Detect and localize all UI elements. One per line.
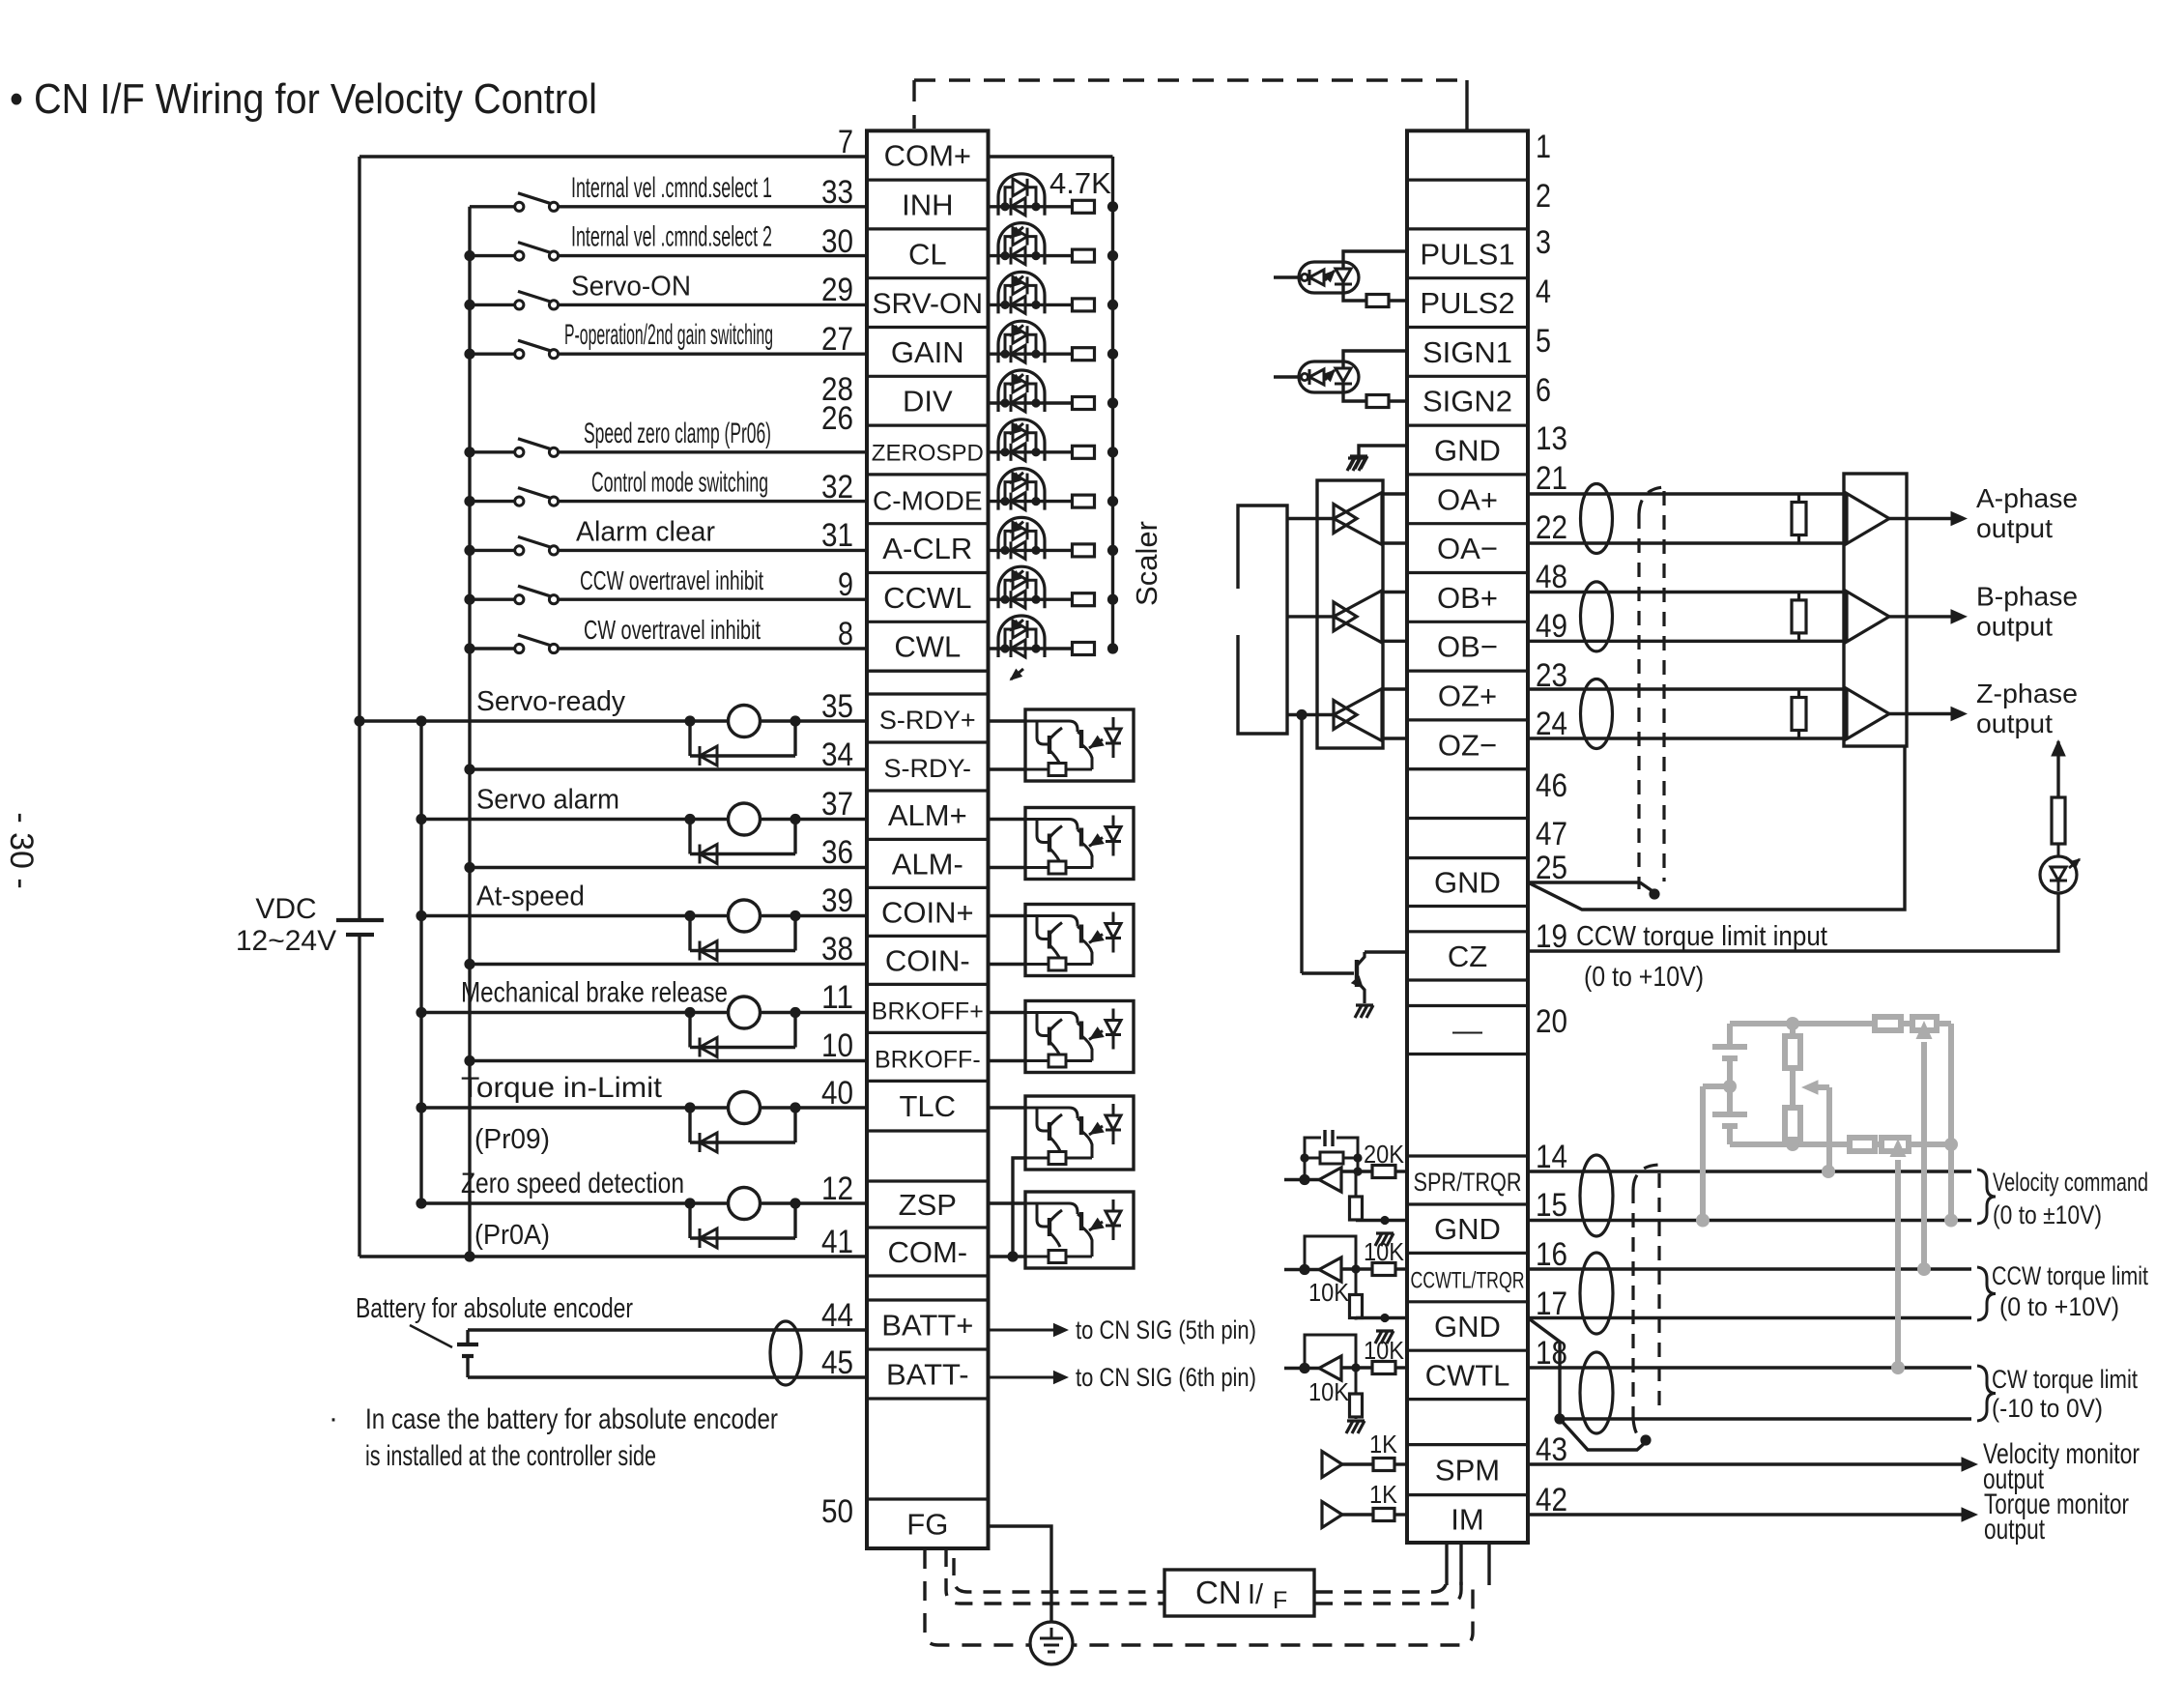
input row ZEROSPD: wire and switch	[464, 447, 474, 457]
pull-up bus from COM+ with 4.7K resistors	[989, 155, 1113, 158]
svg-text:26: 26	[821, 400, 853, 437]
svg-text:10K: 10K	[1308, 1278, 1350, 1307]
LED indicator	[2040, 856, 2077, 893]
input row GAIN: wire and switch	[464, 349, 474, 360]
svg-text:BATT+: BATT+	[881, 1309, 973, 1343]
battery for absolute encoder	[457, 1343, 478, 1346]
wire pin16 CCWTL/TRQR	[1528, 1267, 1971, 1270]
svg-text:13: 13	[1536, 420, 1567, 457]
svg-text:Velocity command: Velocity command	[1993, 1168, 2148, 1197]
switch common bus (COM-) vertical	[468, 207, 471, 1257]
output arrow OZ	[1889, 712, 1958, 715]
svg-text:(0 to +10V): (0 to +10V)	[1999, 1292, 2119, 1321]
optocoupler input CCWL	[989, 598, 1075, 601]
light arrow C-MODE	[1011, 522, 1023, 533]
wire BATT+ pin44	[468, 1328, 867, 1331]
svg-text:COM+: COM+	[884, 139, 971, 173]
svg-text:CW overtravel inhibit: CW overtravel inhibit	[584, 615, 761, 645]
optocoupler input ZEROSPD	[989, 450, 1075, 453]
svg-text:Z-phase: Z-phase	[1976, 679, 2078, 708]
internal bus bracket	[1238, 506, 1287, 734]
CW pot wiper arrow	[1895, 1160, 1901, 1368]
feedback capacitor	[1305, 1138, 1321, 1158]
svg-text:ALM-: ALM-	[892, 847, 963, 881]
op-amp CWTL input stage	[1284, 1367, 1319, 1370]
svg-text:I/: I/	[1248, 1579, 1264, 1610]
shield drain (analog)	[1560, 1419, 1646, 1450]
light arrow DIV	[1011, 423, 1023, 434]
wire pin43 velocity monitor	[1528, 1462, 1968, 1465]
svg-text:CCW overtravel inhibit: CCW overtravel inhibit	[580, 565, 763, 595]
input row C-MODE: wire and switch	[464, 496, 474, 506]
light arrow CL	[1011, 276, 1023, 287]
svg-text:Internal vel .cmnd.select 2: Internal vel .cmnd.select 2	[571, 221, 772, 253]
svg-text:(0 to +10V): (0 to +10V)	[1584, 962, 1704, 993]
op-amp CCWTL/TRQR input stage	[1284, 1268, 1319, 1271]
svg-text:OA+: OA+	[1437, 482, 1498, 516]
wiper to SPR/TRQR	[1814, 1084, 1829, 1090]
svg-text:CW torque limit: CW torque limit	[1992, 1365, 2138, 1394]
receiver block (external)	[1844, 474, 1907, 746]
optocoupler input INH	[989, 205, 1075, 208]
relay coil S-RDY	[729, 706, 761, 737]
svg-text:1K: 1K	[1369, 1480, 1398, 1509]
optocoupler input SRV-ON	[989, 303, 1075, 306]
svg-text:(-10 to 0V): (-10 to 0V)	[1992, 1394, 2103, 1423]
svg-text:Alarm clear: Alarm clear	[576, 516, 715, 547]
svg-text:37: 37	[821, 786, 853, 823]
svg-text:BATT-: BATT-	[886, 1358, 969, 1392]
svg-text:ZSP: ZSP	[899, 1188, 957, 1222]
input row CL: wire and switch	[464, 250, 474, 261]
optocoupler PULS input	[1274, 275, 1299, 278]
svg-text:50: 50	[821, 1493, 853, 1530]
svg-text:1: 1	[1536, 129, 1551, 165]
buffer IM monitor	[1322, 1502, 1342, 1528]
line driver OB	[1287, 615, 1334, 618]
receiver triangle OB	[1847, 592, 1889, 642]
output row BRKOFF return wire	[464, 1055, 474, 1066]
svg-text:GND: GND	[1434, 434, 1501, 468]
light arrow ZEROSPD	[1011, 473, 1023, 483]
twisted pair ellipse OB	[1581, 582, 1613, 651]
GND15 wire	[1356, 1219, 1407, 1222]
wire pin19 CCW torque limit input	[1528, 893, 2058, 951]
optocoupler input CWL	[989, 647, 1075, 650]
label CW torque limit	[1977, 1366, 1996, 1421]
line driver OA	[1287, 517, 1334, 520]
wires OA+ / OA- to pins	[1382, 492, 1407, 495]
wire pin15 GND	[1528, 1219, 1971, 1222]
svg-text:22: 22	[1536, 509, 1567, 546]
svg-text:BRKOFF-: BRKOFF-	[875, 1046, 981, 1073]
svg-text:Servo alarm: Servo alarm	[476, 785, 619, 816]
twisted pair ellipses (analog)	[1580, 1155, 1613, 1236]
resistor above LED	[2052, 797, 2065, 844]
input row SRV-ON: wire and switch	[464, 300, 474, 310]
svg-text:20K: 20K	[1364, 1140, 1405, 1169]
svg-text:15: 15	[1536, 1187, 1567, 1224]
svg-text:OA−: OA−	[1437, 532, 1498, 565]
svg-text:SRV-ON: SRV-ON	[873, 288, 983, 320]
twisted pair ellipse BATT	[770, 1321, 801, 1385]
svg-text:CCW torque limit: CCW torque limit	[1992, 1261, 2148, 1290]
svg-text:COIN+: COIN+	[881, 895, 974, 929]
encoder pair OZ wires	[1528, 687, 1847, 690]
svg-text:OZ+: OZ+	[1438, 679, 1497, 713]
wire COM+ pin7 left	[359, 155, 867, 158]
svg-text:(0 to ±10V): (0 to ±10V)	[1993, 1200, 2102, 1229]
svg-text:TLC: TLC	[900, 1089, 957, 1123]
output row TLC: relay coil and diode	[416, 1102, 426, 1113]
svg-text:output: output	[1976, 513, 2053, 543]
output arrow OA	[1889, 517, 1958, 520]
wires OB+ / OB- to pins	[1382, 591, 1407, 593]
svg-text:is installed at the controller: is installed at the controller side	[365, 1440, 656, 1472]
svg-text:CCW torque limit input: CCW torque limit input	[1576, 921, 1827, 952]
wire pin42 torque monitor	[1528, 1513, 1968, 1516]
light arrow SRV-ON	[1011, 325, 1023, 335]
svg-text:SPM: SPM	[1435, 1454, 1500, 1488]
svg-text:F: F	[1273, 1587, 1287, 1614]
CN I/F box	[1164, 1570, 1314, 1616]
svg-text:10: 10	[821, 1027, 853, 1064]
optocoupler input CL	[989, 254, 1075, 257]
svg-text:(Pr0A): (Pr0A)	[474, 1220, 550, 1251]
terminating resistor OZ	[1797, 689, 1800, 698]
optocoupler output BRKOFF	[1025, 1001, 1134, 1073]
svg-text:39: 39	[821, 882, 853, 919]
svg-text:Mechanical brake release: Mechanical brake release	[461, 977, 728, 1009]
svg-text:BRKOFF+: BRKOFF+	[872, 997, 984, 1025]
output common bus (+)	[419, 721, 422, 1203]
output row ALM: relay coil and diode	[416, 814, 426, 824]
svg-text:P-operation/2nd gain switching: P-operation/2nd gain switching	[564, 319, 773, 351]
node to CZ transistor base	[1296, 709, 1307, 720]
svg-text:S-RDY-: S-RDY-	[884, 754, 972, 783]
grey battery 1	[1712, 1044, 1747, 1050]
stub wires below right connector	[1445, 1543, 1448, 1585]
svg-text:ALM+: ALM+	[888, 798, 967, 832]
optocoupler input C-MODE	[989, 500, 1075, 503]
optocoupler input GAIN	[989, 353, 1075, 356]
optocoupler SIGN input	[1274, 375, 1299, 378]
svg-text:CN: CN	[1195, 1575, 1242, 1610]
GND17 wire	[1356, 1316, 1407, 1319]
relay coil ALM	[729, 803, 761, 835]
protective earth symbol	[1030, 1622, 1073, 1664]
svg-text:10K: 10K	[1308, 1377, 1350, 1406]
dashed cable shield (encoder pairs)	[1637, 514, 1640, 889]
output row ZSP: relay coil and diode	[416, 1198, 426, 1208]
COM- wire to ZSP opto	[989, 1255, 1026, 1257]
svg-text:20: 20	[1536, 1003, 1567, 1040]
output arrow OB	[1889, 615, 1958, 618]
svg-text:GND: GND	[1434, 866, 1501, 900]
output row S-RDY: relay coil and diode	[354, 715, 364, 726]
svg-text:CL: CL	[908, 237, 947, 271]
left connector row separators	[867, 179, 989, 182]
svg-text:3: 3	[1536, 224, 1551, 261]
light arrow GAIN	[1011, 374, 1023, 385]
svg-text:SIGN2: SIGN2	[1422, 385, 1512, 419]
wire from dashed boundary to right connector top	[1465, 80, 1468, 130]
svg-text:CCWTL/TRQR: CCWTL/TRQR	[1411, 1268, 1525, 1294]
grey battery 2	[1712, 1112, 1747, 1117]
output row COIN: relay coil and diode	[416, 910, 426, 921]
svg-text:2: 2	[1536, 178, 1551, 215]
transistor CZ output	[1302, 971, 1354, 974]
battery VDC 12~24V	[336, 918, 384, 922]
svg-text:DIV: DIV	[903, 385, 953, 419]
external velocity command circuit (grey)	[1730, 1021, 1951, 1026]
svg-text:SPR/TRQR: SPR/TRQR	[1414, 1168, 1522, 1197]
svg-text:(Pr09): (Pr09)	[474, 1124, 550, 1155]
svg-text:10K: 10K	[1364, 1336, 1405, 1365]
output row S-RDY return wire	[464, 764, 474, 774]
line driver OZ	[1287, 713, 1334, 716]
svg-text:29: 29	[821, 272, 853, 308]
svg-text:Torque in-Limit: Torque in-Limit	[461, 1072, 663, 1104]
svg-text:Battery for absolute encoder: Battery for absolute encoder	[356, 1293, 633, 1324]
output row ALM return wire	[464, 862, 474, 873]
svg-text:Zero speed detection: Zero speed detection	[461, 1168, 684, 1199]
connector CN I/F (left column) body	[867, 130, 989, 1548]
svg-text:output: output	[1984, 1514, 2045, 1546]
svg-text:OZ−: OZ−	[1438, 728, 1497, 762]
buffer SPM monitor	[1322, 1452, 1342, 1478]
relay coil COIN	[729, 900, 761, 932]
arrows to CN SIG	[989, 1329, 1062, 1332]
wire pin14 SPR/TRQR	[1528, 1170, 1971, 1172]
svg-text:GND: GND	[1434, 1310, 1501, 1344]
connector CN I/F (right column) body	[1407, 130, 1528, 1543]
light arrow CWL	[1011, 669, 1023, 679]
input row CWL: wire and switch	[464, 643, 474, 653]
svg-text:- 30 -: - 30 -	[3, 812, 40, 888]
TLC opto return drop to COM-	[1013, 1158, 1025, 1257]
GND pin25 wire to shield drain	[1528, 881, 1640, 883]
svg-text:21: 21	[1536, 460, 1567, 497]
svg-text:A-CLR: A-CLR	[882, 532, 972, 565]
svg-text:12~24V: 12~24V	[236, 925, 336, 957]
dashed cable shield (analog)	[1631, 1189, 1634, 1419]
grey resistors (top)	[1875, 1017, 1901, 1030]
dashed signal cable pair to CN I/F	[946, 1549, 1164, 1604]
wire COM- pin41	[359, 1255, 867, 1257]
light arrow INH	[1011, 227, 1023, 238]
svg-text:output: output	[1976, 708, 2053, 738]
svg-text:A-phase: A-phase	[1976, 483, 2078, 513]
tail resistor to GND15	[1355, 1171, 1358, 1197]
ground at GND pin13	[1359, 446, 1407, 455]
svg-text:38: 38	[821, 931, 853, 968]
svg-text:9: 9	[838, 566, 853, 603]
encoder pair OB wires	[1528, 591, 1847, 593]
svg-text:B-phase: B-phase	[1976, 581, 2078, 611]
svg-text:4.7K: 4.7K	[1049, 166, 1111, 200]
svg-text:PULS2: PULS2	[1420, 286, 1514, 320]
wire pin18 CWTL	[1528, 1366, 1971, 1369]
twisted pair ellipse OZ	[1581, 679, 1613, 749]
svg-text:·: ·	[329, 1402, 338, 1434]
svg-text:47: 47	[1536, 816, 1567, 852]
svg-text:ZEROSPD: ZEROSPD	[872, 441, 984, 467]
svg-text:to CN SIG (5th pin): to CN SIG (5th pin)	[1076, 1315, 1256, 1344]
svg-text:Control mode switching: Control mode switching	[591, 468, 768, 499]
svg-text:to CN SIG (6th pin): to CN SIG (6th pin)	[1076, 1363, 1256, 1392]
svg-text:27: 27	[821, 321, 853, 358]
receiver triangle OZ	[1847, 689, 1889, 739]
svg-text:46: 46	[1536, 767, 1567, 804]
series resistor 20K	[1341, 1170, 1372, 1172]
wire FG pin50 to earth	[989, 1526, 1052, 1621]
op-amp SPR/TRQR input stage	[1284, 1178, 1319, 1181]
svg-text:10K: 10K	[1364, 1237, 1405, 1266]
svg-text:Servo-ON: Servo-ON	[571, 271, 691, 302]
output row BRKOFF: relay coil and diode	[416, 1007, 426, 1018]
potentiometer (velocity)	[1786, 1017, 1799, 1030]
svg-text:IM: IM	[1451, 1502, 1483, 1536]
svg-text:1K: 1K	[1369, 1430, 1398, 1459]
wire BATT- pin45	[468, 1375, 867, 1378]
svg-text:output: output	[1976, 611, 2053, 641]
svg-text:CZ: CZ	[1448, 939, 1487, 973]
svg-text:GAIN: GAIN	[891, 335, 964, 369]
terminating resistor OA	[1797, 494, 1800, 503]
svg-text:4: 4	[1536, 274, 1551, 310]
wire pin17 GND	[1528, 1316, 1971, 1319]
GND17 hook and CW return wire	[1528, 1318, 1560, 1420]
output row COIN return wire	[464, 959, 474, 969]
twisted pair ellipse OA	[1581, 484, 1613, 554]
svg-text:5: 5	[1536, 323, 1551, 360]
svg-text:Internal vel .cmnd.select 1: Internal vel .cmnd.select 1	[571, 172, 772, 204]
optocoupler input A-CLR	[989, 549, 1075, 552]
dashed amplifier boundary (top)	[914, 78, 1467, 81]
svg-text:SIGN1: SIGN1	[1422, 335, 1512, 369]
svg-text:Speed zero clamp (Pr06): Speed zero clamp (Pr06)	[584, 418, 771, 449]
svg-text:48: 48	[1536, 559, 1567, 595]
svg-text:In case the battery for absolu: In case the battery for absolute encoder	[365, 1403, 778, 1435]
label velocity command	[1977, 1170, 1996, 1224]
svg-text:Scaler: Scaler	[1130, 521, 1164, 606]
grey resistors (bottom)	[1850, 1138, 1875, 1151]
light arrow CCWL	[1011, 620, 1023, 630]
svg-text:PULS1: PULS1	[1420, 237, 1514, 271]
svg-text:36: 36	[821, 834, 853, 871]
receiver triangle OA	[1847, 494, 1889, 544]
optocoupler output COIN	[1025, 905, 1134, 976]
relay coil TLC	[729, 1092, 761, 1124]
optocoupler input DIV	[989, 401, 1075, 404]
grey vertical to GND15	[1948, 1024, 1954, 1221]
svg-text:FG: FG	[906, 1508, 948, 1542]
light arrow A-CLR	[1011, 570, 1023, 581]
label CCW torque limit	[1977, 1267, 1996, 1320]
svg-text:CWTL: CWTL	[1425, 1358, 1510, 1392]
svg-text:COIN-: COIN-	[885, 943, 970, 977]
input row CCWL: wire and switch	[464, 594, 474, 605]
svg-text:S-RDY+: S-RDY+	[879, 706, 976, 735]
CCW pot wiper arrow	[1921, 1042, 1927, 1269]
wires OZ+ / OZ- to pins	[1382, 687, 1407, 690]
relay coil ZSP	[729, 1188, 761, 1220]
ground above driver block	[1348, 456, 1365, 459]
line driver block	[1317, 480, 1383, 748]
svg-text:31: 31	[821, 517, 853, 554]
svg-text:C-MODE: C-MODE	[873, 485, 983, 515]
svg-text:CCWL: CCWL	[883, 581, 971, 615]
svg-text:OB+: OB+	[1437, 581, 1498, 615]
dashed shield path (FG to frame)	[925, 1549, 1473, 1645]
right connector row separators	[1407, 179, 1528, 182]
GND pin25 hook to receiver return	[1528, 746, 1905, 910]
svg-text:• CN I/F Wiring for Velocity C: • CN I/F Wiring for Velocity Control	[10, 75, 597, 123]
feedback resistor loop	[1305, 1157, 1320, 1160]
svg-text:6: 6	[1536, 372, 1551, 409]
terminating resistor OB	[1797, 592, 1800, 600]
VDC bus vertical	[358, 157, 360, 920]
battery leader line	[410, 1325, 452, 1347]
svg-text:VDC: VDC	[255, 893, 316, 925]
svg-text:—: —	[1452, 1014, 1482, 1048]
encoder pair OA wires	[1528, 492, 1847, 495]
svg-text:COM-: COM-	[887, 1235, 967, 1269]
svg-text:CWL: CWL	[894, 630, 961, 664]
svg-text:Servo-ready: Servo-ready	[476, 686, 625, 717]
svg-text:11: 11	[821, 979, 853, 1016]
optocoupler output ZSP	[1025, 1192, 1134, 1268]
svg-text:At-speed: At-speed	[476, 881, 585, 912]
optocoupler output S-RDY	[1025, 709, 1134, 781]
relay coil BRKOFF	[729, 997, 761, 1028]
optocoupler output ALM	[1025, 808, 1134, 880]
svg-text:49: 49	[1536, 608, 1567, 645]
svg-text:GND: GND	[1434, 1212, 1501, 1246]
svg-text:INH: INH	[902, 188, 953, 222]
optocoupler output TLC	[1025, 1096, 1134, 1170]
input row A-CLR: wire and switch	[464, 545, 474, 556]
input row INH: wire and switch	[470, 205, 515, 208]
svg-text:OB−: OB−	[1437, 630, 1498, 664]
